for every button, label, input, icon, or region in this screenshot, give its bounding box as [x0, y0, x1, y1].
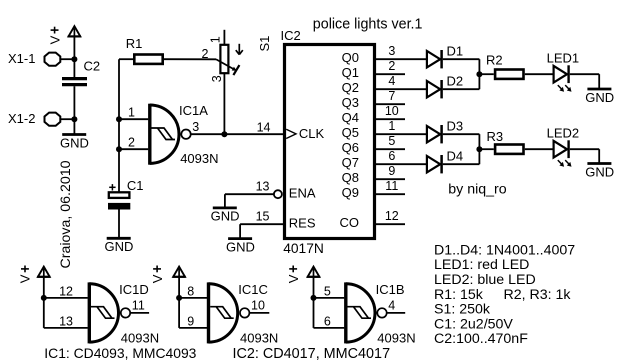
wire IC2 pin 9 (Q8) stub — [376, 178, 405, 180]
ground below C1 — [105, 238, 134, 254]
svg-text:C2:100..470nF: C2:100..470nF — [434, 331, 528, 347]
svg-text:LED2: LED2 — [547, 125, 580, 140]
svg-text:GND: GND — [226, 239, 255, 254]
svg-text:6: 6 — [388, 149, 395, 163]
svg-text:Q0: Q0 — [342, 50, 359, 65]
wire D1 cathode to bus — [443, 58, 480, 60]
svg-text:D2: D2 — [447, 73, 464, 88]
svg-text:IC1B: IC1B — [376, 282, 405, 297]
wire IC1C top input pin 8 — [179, 297, 207, 299]
wire bus D3-D4 — [478, 134, 480, 164]
svg-text:D3: D3 — [447, 118, 464, 133]
svg-text:R2, R3: 1k: R2, R3: 1k — [504, 287, 572, 303]
svg-text:2: 2 — [128, 135, 135, 149]
svg-text:IC1D: IC1D — [119, 282, 149, 297]
IC1D output wire pin 11 — [130, 312, 149, 314]
wire IC2 pin 7 (Q3) stub — [376, 103, 405, 105]
wire C1 to ground — [118, 210, 120, 238]
svg-text:15: 15 — [256, 210, 270, 224]
capacitor C2 — [62, 58, 100, 84]
ground below C2 — [60, 135, 89, 151]
svg-text:3: 3 — [388, 44, 395, 58]
svg-text:D4: D4 — [447, 148, 464, 163]
svg-text:4093N: 4093N — [377, 331, 415, 346]
svg-text:14: 14 — [257, 120, 271, 134]
svg-text:Q1: Q1 — [342, 65, 359, 80]
power V+ symbol top left — [68, 26, 81, 36]
svg-text:CLK: CLK — [299, 126, 325, 141]
wire D4 cathode to bus — [443, 163, 480, 165]
svg-text:10: 10 — [251, 299, 265, 313]
diode D4 — [427, 148, 463, 173]
svg-text:1: 1 — [208, 36, 222, 43]
wire vertical bus R1/IC1A inputs/C1 — [118, 59, 120, 192]
svg-text:2: 2 — [202, 47, 209, 61]
wire V+ arrow to X1-1 node — [73, 36, 75, 59]
IC U2: CD4017 decade counter box — [285, 45, 375, 239]
wire IC1A pin 2 — [119, 148, 148, 150]
svg-text:LED1: LED1 — [547, 50, 580, 65]
wire IC2 pin 11 (Q9) stub — [376, 193, 405, 195]
svg-text:D1..D4: 1N4001..4007: D1..D4: 1N4001..4007 — [434, 242, 575, 258]
svg-text:3: 3 — [210, 75, 224, 82]
svg-text:X1-1: X1-1 — [8, 51, 35, 66]
NAND gate IC1D (4093 Schmitt trigger) — [89, 282, 130, 343]
wire S1 pin3 down to CLK node — [223, 74, 225, 134]
svg-text:Q6: Q6 — [342, 140, 359, 155]
LED LED2 — [547, 125, 580, 166]
wire junction to R2 — [479, 73, 493, 75]
svg-text:9: 9 — [187, 315, 194, 329]
IC1B output wire pin 4 — [387, 312, 405, 314]
svg-text:V: V — [18, 274, 33, 283]
svg-text:8: 8 — [187, 285, 194, 299]
svg-text:5: 5 — [324, 285, 331, 299]
svg-text:police lights ver.1: police lights ver.1 — [313, 16, 423, 32]
svg-text:LED2: blue LED: LED2: blue LED — [434, 272, 536, 288]
wire IC2 pin 3 (Q0) stub — [376, 58, 426, 60]
wire V+ down through IC1C inputs — [178, 277, 180, 328]
wire X1-2 to node — [61, 118, 75, 120]
resistor R1 — [126, 36, 163, 64]
connector pin X1-2 — [8, 111, 60, 126]
svg-text:by niq_ro: by niq_ro — [448, 181, 506, 197]
IC2 ENA inversion bubble — [274, 190, 282, 198]
NAND gate IC1C (4093 Schmitt trigger) — [209, 282, 250, 343]
svg-text:4: 4 — [388, 299, 395, 313]
capacitor C1 (electrolytic) — [108, 178, 144, 210]
wire IC1A pin 1 — [119, 118, 148, 120]
svg-text:Q8: Q8 — [342, 170, 359, 185]
svg-text:R1: R1 — [126, 36, 143, 51]
svg-text:Q2: Q2 — [342, 80, 359, 95]
svg-text:5: 5 — [388, 134, 395, 148]
S1 adjustment down-arrow — [236, 44, 243, 55]
svg-text:IC1A: IC1A — [179, 103, 208, 118]
svg-text:2: 2 — [388, 59, 395, 73]
connector pin X1-1 — [8, 51, 60, 66]
svg-text:V: V — [286, 274, 301, 283]
resistor R3 — [487, 129, 524, 154]
svg-text:IC1: CD4093, MMC4093: IC1: CD4093, MMC4093 — [44, 345, 196, 361]
junction D3/D4/R3 — [476, 146, 482, 152]
svg-text:10: 10 — [385, 104, 399, 118]
junction node X1-2/C2/GND — [71, 116, 77, 122]
junction S1 / CLK wire — [221, 131, 227, 137]
svg-text:9: 9 — [388, 164, 395, 178]
wire IC2 pin 10 (Q4) stub — [376, 118, 405, 120]
wire IC2 pin 6 (Q7) stub — [376, 163, 426, 165]
svg-text:Craiova, 06.2010: Craiova, 06.2010 — [58, 160, 74, 268]
wire LED2 to ground corner — [570, 148, 599, 150]
svg-text:12: 12 — [59, 285, 73, 299]
wire bus D1-D2 — [478, 59, 480, 89]
svg-text:12: 12 — [385, 209, 399, 223]
svg-text:4093N: 4093N — [180, 151, 218, 166]
svg-text:R3: R3 — [487, 129, 504, 144]
svg-text:4: 4 — [388, 74, 395, 88]
wire V+ down through IC1B inputs — [313, 277, 315, 328]
svg-text:RES: RES — [289, 216, 316, 231]
diode D2 — [427, 73, 463, 98]
junction IC1C pin 8 — [176, 295, 182, 301]
wire R1 left lead — [119, 58, 133, 60]
svg-text:6: 6 — [324, 315, 331, 329]
svg-text:Q4: Q4 — [342, 110, 359, 125]
junction bus / IC1A pin2 / C1 — [116, 146, 122, 152]
wire LED1 to ground corner — [570, 73, 599, 75]
wire IC1B top input pin 5 — [314, 297, 345, 299]
svg-text:R2: R2 — [486, 52, 503, 67]
ground LED2 — [585, 164, 614, 180]
svg-text:LED1: red LED: LED1: red LED — [434, 257, 529, 273]
wire D2 cathode to bus — [443, 88, 480, 90]
svg-text:C2: C2 — [84, 58, 101, 73]
svg-text:S1: 250k: S1: 250k — [434, 302, 491, 318]
svg-text:GND: GND — [105, 239, 134, 254]
svg-text:S1: S1 — [257, 36, 272, 52]
wire R2 to LED1 — [525, 73, 554, 75]
wire RES pin 15 — [240, 223, 283, 225]
svg-text:4093N: 4093N — [121, 331, 159, 346]
wire node to C2 top plate — [73, 59, 75, 77]
svg-text:D1: D1 — [447, 43, 464, 58]
svg-text:IC1C: IC1C — [238, 282, 268, 297]
svg-text:R1: 15k: R1: 15k — [434, 287, 484, 303]
wire IC1C bottom input pin 9 — [179, 327, 207, 329]
svg-text:C1: 2u2/50V: C1: 2u2/50V — [434, 316, 513, 332]
wire IC1D top input pin 12 — [44, 297, 88, 299]
svg-text:V: V — [47, 35, 62, 44]
wire IC1D bottom input pin 13 — [44, 327, 88, 329]
power V+ symbol above IC1D — [37, 267, 50, 277]
junction node X1-1/V+/C2 — [71, 56, 77, 62]
svg-text:3: 3 — [192, 120, 199, 134]
wire IC2 pin 2 (Q1) stub — [376, 73, 405, 75]
svg-text:Q5: Q5 — [342, 125, 359, 140]
svg-text:GND: GND — [585, 164, 614, 179]
svg-text:13: 13 — [256, 179, 270, 193]
svg-text:V: V — [150, 274, 165, 283]
svg-text:Q7: Q7 — [342, 155, 359, 170]
potentiometer S1 wiper arrow — [216, 59, 239, 75]
potentiometer S1 body — [220, 45, 228, 73]
svg-text:4017N: 4017N — [283, 241, 324, 256]
power V+ symbol above IC1C — [173, 267, 186, 277]
IC1C output wire pin 10 — [250, 312, 270, 314]
svg-text:Q9: Q9 — [342, 185, 359, 200]
wire junction to R3 — [479, 148, 493, 150]
LED LED1 — [547, 50, 580, 91]
svg-text:13: 13 — [59, 315, 73, 329]
wire IC2 pin 4 (Q2) stub — [376, 88, 426, 90]
svg-text:11: 11 — [385, 179, 398, 193]
svg-text:11: 11 — [132, 299, 145, 313]
IC2 CLK input clock triangle — [286, 129, 296, 138]
wire node to ground — [73, 119, 75, 134]
diode D3 — [427, 118, 463, 143]
svg-text:IC2: CD4017, MMC4017: IC2: CD4017, MMC4017 — [233, 346, 391, 362]
svg-text:CO: CO — [340, 215, 360, 230]
wire V+ down through IC1D inputs — [43, 277, 45, 328]
junction R1 bus / IC1A pin1 — [116, 116, 122, 122]
junction IC1D pin 12 — [41, 295, 47, 301]
svg-text:1: 1 — [128, 105, 135, 119]
wire IC2 pin 12 (CO) stub — [376, 223, 405, 225]
wire IC1B bottom input pin 6 — [314, 327, 345, 329]
wire IC2 pin 1 (Q5) stub — [376, 133, 426, 135]
svg-text:1: 1 — [388, 119, 395, 133]
junction D1/D2/R2 — [476, 71, 482, 77]
svg-text:ENA: ENA — [289, 186, 316, 201]
wire D3 cathode to bus — [443, 133, 480, 135]
svg-text:IC2: IC2 — [281, 28, 301, 43]
svg-text:7: 7 — [388, 89, 395, 103]
wire ENA down to ground — [224, 194, 226, 207]
svg-text:X1-2: X1-2 — [8, 111, 35, 126]
svg-text:Q3: Q3 — [342, 95, 359, 110]
wire S1 pin 1 stub — [223, 30, 225, 45]
ground RES — [226, 239, 255, 255]
wire R3 to LED2 — [525, 148, 554, 150]
diode D1 — [427, 43, 463, 68]
svg-text:4093N: 4093N — [240, 331, 278, 346]
wire C2 bottom plate to X1-2 node — [73, 86, 75, 119]
NAND gate IC1B (4093 Schmitt trigger) — [346, 282, 387, 343]
svg-text:GND: GND — [211, 209, 240, 224]
power V+ symbol above IC1B — [307, 267, 320, 277]
wire RES down to ground — [239, 224, 241, 238]
wire ENA pin 13 — [225, 193, 275, 195]
ground ENA — [211, 208, 240, 224]
NAND gate IC1A (4093 Schmitt trigger) — [150, 104, 191, 165]
resistor R2 — [486, 52, 524, 79]
svg-text:C1: C1 — [127, 178, 144, 193]
svg-text:GND: GND — [60, 135, 89, 150]
svg-text:GND: GND — [585, 90, 614, 105]
ground LED1 — [585, 89, 614, 105]
wire R1 right lead to S1 wiper — [164, 58, 216, 60]
junction IC1B pin 5 — [311, 295, 317, 301]
wire IC2 pin 5 (Q6) stub — [376, 148, 405, 150]
wire X1-1 to node — [61, 58, 75, 60]
wire IC1A output to IC2 CLK pin 14 — [191, 133, 283, 135]
